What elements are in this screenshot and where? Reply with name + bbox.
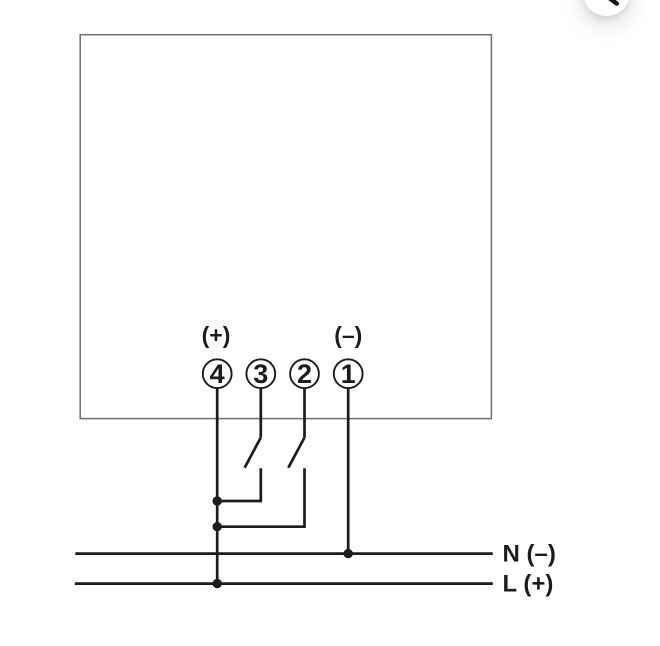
svg-text:3: 3 (253, 359, 268, 389)
svg-text:(–): (–) (334, 322, 362, 348)
svg-text:1: 1 (341, 359, 356, 389)
svg-text:4: 4 (210, 359, 225, 389)
svg-text:L (+): L (+) (503, 571, 554, 598)
svg-text:2: 2 (297, 359, 312, 389)
svg-text:(+): (+) (202, 322, 231, 348)
svg-text:N (–): N (–) (503, 541, 556, 568)
